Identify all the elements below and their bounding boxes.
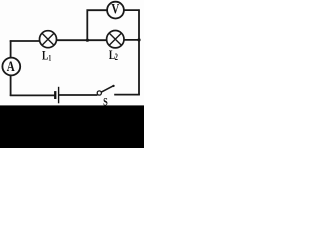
svg-text:A: A	[7, 57, 15, 74]
svg-text:1: 1	[48, 53, 51, 62]
svg-text:2: 2	[115, 52, 118, 62]
svg-text:V: V	[111, 0, 119, 17]
svg-text:S: S	[103, 96, 108, 109]
